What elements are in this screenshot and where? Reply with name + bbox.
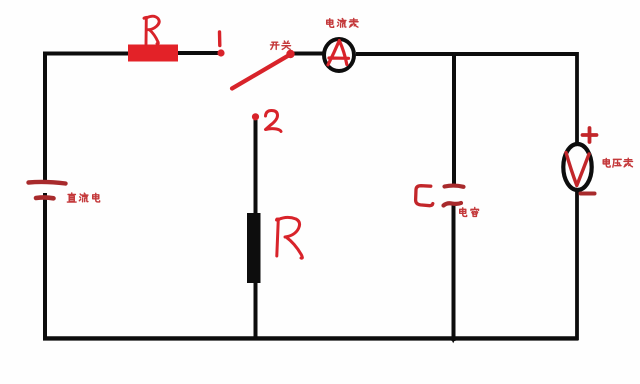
resistor R1 (red, top) bbox=[128, 45, 178, 62]
small tick below bottom wire at capacitor branch bbox=[452, 341, 455, 344]
wire bottom bbox=[43, 336, 579, 340]
capacitor top plate bbox=[445, 186, 464, 187]
wire middle branch lower bbox=[254, 281, 258, 339]
voltmeter minus sign bbox=[581, 192, 595, 196]
battery short plate bbox=[36, 195, 54, 200]
node 2 dot bbox=[252, 113, 259, 120]
wire top-left (left corner to resistor R) bbox=[43, 52, 128, 56]
wire capacitor branch lower bbox=[452, 203, 456, 341]
capacitor C label letter (handwritten) bbox=[416, 186, 433, 206]
wire right vertical upper bbox=[575, 52, 579, 146]
wire switch to ammeter bbox=[292, 52, 323, 56]
capacitor bottom plate bbox=[444, 203, 462, 206]
wire capacitor branch upper bbox=[452, 53, 456, 186]
label 开关 bbox=[270, 41, 290, 49]
label 直流电 bbox=[67, 193, 99, 202]
label 电流表 bbox=[327, 19, 358, 28]
wire right vertical lower bbox=[575, 189, 579, 340]
ammeter A1 (circle) bbox=[324, 39, 354, 71]
resistor R2 (black, middle branch) bbox=[247, 213, 261, 283]
voltmeter letter V (red handwritten) bbox=[566, 153, 589, 186]
label R of top resistor (handwritten) bbox=[144, 16, 159, 44]
battery (DC source) long plate bbox=[29, 182, 66, 184]
label 电压表 bbox=[603, 158, 632, 167]
ammeter letter A (red handwritten) bbox=[328, 41, 349, 65]
wire resistor to node 1 bbox=[178, 51, 221, 55]
label 电容 bbox=[460, 208, 479, 217]
wire ammeter to top-right corner bbox=[356, 52, 577, 56]
switch blade (red diagonal) bbox=[232, 54, 291, 89]
node 1 marker (red exclamation + dot) bbox=[218, 32, 222, 46]
label 2 (handwritten) bbox=[266, 111, 282, 132]
wire left vertical lower bbox=[43, 193, 47, 340]
wire left vertical upper bbox=[43, 52, 47, 185]
switch pivot dot bbox=[286, 50, 294, 58]
wire middle branch upper bbox=[254, 120, 258, 215]
voltmeter V1 (ellipse) bbox=[563, 144, 591, 190]
voltmeter plus sign bbox=[583, 128, 597, 142]
label R of middle resistor (handwritten) bbox=[277, 217, 303, 258]
